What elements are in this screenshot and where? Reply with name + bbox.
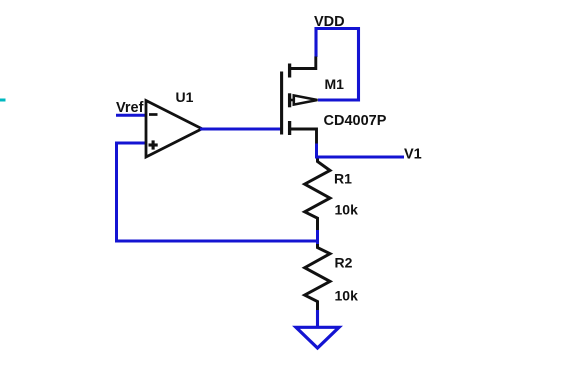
- svg-text:Vref: Vref: [116, 100, 144, 116]
- svg-text:VDD: VDD: [314, 14, 345, 30]
- wire Vref to op-amp inverting input: [116, 114, 146, 117]
- wire feedback: op-amp + input, left and down to R1/R2 junction: [117, 143, 318, 241]
- resistor R2: [305, 244, 330, 311]
- wire R1 bottom to junction: [316, 230, 319, 244]
- svg-text:10k: 10k: [335, 287, 359, 303]
- svg-text:M1: M1: [325, 76, 345, 92]
- wire op-amp output to MOSFET gate: [200, 128, 283, 131]
- svg-text:U1: U1: [176, 89, 194, 105]
- resistor R1: [305, 159, 330, 232]
- svg-text:R2: R2: [335, 254, 353, 270]
- transistor M1 (NMOS, CD4007P): [282, 57, 318, 144]
- wire R2 bottom to ground: [316, 310, 319, 328]
- svg-text:CD4007P: CD4007P: [324, 113, 387, 129]
- ground: [296, 327, 339, 348]
- wire VDD supply loop: down to drain, and around to bulk: [316, 29, 359, 101]
- svg-text:V1: V1: [404, 146, 422, 162]
- op-amp U1: [146, 101, 202, 158]
- svg-text:R1: R1: [334, 171, 352, 187]
- cyan screen artifact at left edge: [0, 99, 6, 102]
- wire source to V1 output node: [317, 144, 405, 158]
- svg-text:10k: 10k: [335, 202, 359, 218]
